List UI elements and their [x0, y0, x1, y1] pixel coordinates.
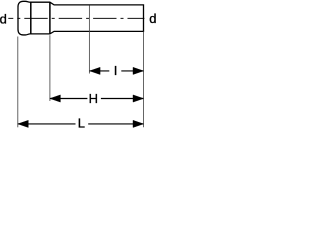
svg-text:d: d [0, 11, 7, 26]
centerline [8, 17, 144, 19]
pipe body outline with press socket [18, 1, 144, 35]
svg-text:d: d [149, 11, 156, 26]
svg-text:H: H [89, 91, 98, 106]
extension line right end [143, 32, 145, 128]
dim L line [18, 123, 144, 125]
dim H line [50, 98, 144, 100]
dim I line [90, 70, 144, 72]
socket end line [49, 2, 51, 34]
extension line socket end [49, 35, 51, 101]
dim I arrows [90, 67, 101, 74]
socket bead end line [30, 2, 32, 34]
extension line left end [17, 37, 19, 128]
dim H arrows [50, 95, 61, 102]
svg-text:L: L [78, 115, 85, 130]
svg-text:I: I [114, 63, 118, 78]
insertion depth mark on pipe [88, 5, 90, 73]
dim L arrows [18, 120, 29, 127]
